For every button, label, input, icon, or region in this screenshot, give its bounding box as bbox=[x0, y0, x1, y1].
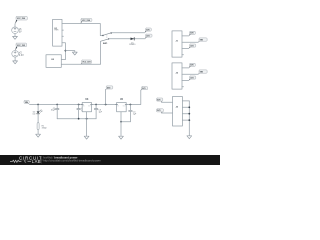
wire U4 ground rail bbox=[121, 121, 130, 123]
wire J3 left pin1 bbox=[161, 101, 172, 103]
svg-text:VCC_3V3: VCC_3V3 bbox=[17, 45, 25, 47]
header J3 bbox=[173, 97, 183, 127]
wire bbox=[182, 113, 189, 115]
net flag 3V3 (J3 left2) bbox=[156, 109, 163, 113]
label V1 5V bbox=[19, 28, 23, 34]
wire U3 ground bbox=[86, 112, 88, 136]
wire bottom rail bbox=[57, 118, 96, 120]
footer bar bbox=[0, 155, 220, 165]
pin stub U3 right bbox=[91, 104, 93, 106]
LED D2 bbox=[32, 110, 42, 116]
junction bbox=[105, 104, 107, 106]
junction bbox=[86, 118, 88, 120]
ground bbox=[36, 134, 41, 137]
pin stub U4 right bbox=[125, 104, 127, 106]
junction bbox=[95, 104, 97, 106]
svg-text:red: red bbox=[32, 114, 35, 116]
junction bbox=[120, 121, 122, 123]
wire to net flag 5V0 (rail) bbox=[105, 89, 107, 104]
pin stub J2.4 bbox=[182, 86, 184, 88]
header J1 bbox=[172, 31, 182, 57]
wire U4 ground bbox=[120, 112, 122, 136]
wire bbox=[14, 24, 16, 27]
net flag 5V0 (top right) bbox=[145, 28, 151, 33]
svg-text:VCC_3V3: VCC_3V3 bbox=[82, 62, 90, 64]
wire J1 pin3 bbox=[182, 48, 189, 50]
voltage source V1 bbox=[12, 27, 19, 34]
net flag 3V3 (J2.3) bbox=[189, 76, 196, 80]
wire bbox=[14, 57, 16, 61]
svg-text:5V0: 5V0 bbox=[157, 99, 160, 101]
ground bbox=[13, 61, 18, 64]
pin stub U1.3 bbox=[62, 35, 63, 37]
junction bbox=[188, 119, 190, 121]
junction bbox=[130, 104, 132, 106]
svg-text:5V0: 5V0 bbox=[190, 33, 193, 35]
svg-text:3V3: 3V3 bbox=[157, 110, 160, 112]
wire J2 pin1 bbox=[182, 67, 189, 69]
net flag VCC_5V0 (top wire) bbox=[81, 19, 92, 24]
diode D1 bbox=[129, 38, 135, 47]
net flag 3V3 (J1.3) bbox=[189, 44, 196, 48]
svg-text:3.3V: 3.3V bbox=[19, 54, 24, 57]
svg-text:5V0: 5V0 bbox=[146, 29, 149, 31]
ground bbox=[187, 136, 192, 139]
wire U1 pin4 down bbox=[61, 43, 65, 60]
junction bbox=[188, 113, 190, 115]
svg-text:OUT: OUT bbox=[123, 106, 126, 108]
svg-text:5V: 5V bbox=[19, 31, 22, 34]
IC U1 bbox=[53, 19, 62, 46]
junction bbox=[37, 104, 39, 106]
wire switch throw2 through diode bbox=[109, 38, 145, 40]
svg-text:10µF: 10µF bbox=[51, 110, 56, 112]
IC U2 bbox=[46, 55, 61, 68]
net flag VIN (J2.2) bbox=[198, 70, 207, 74]
svg-text:IN: IN bbox=[117, 106, 118, 108]
capacitor C2 bbox=[77, 105, 85, 119]
wire to ground bbox=[65, 51, 74, 53]
wire J2 pin3 bbox=[182, 80, 189, 82]
svg-text:VCC_5V0: VCC_5V0 bbox=[82, 20, 90, 22]
wire bbox=[14, 49, 16, 51]
ground bbox=[119, 136, 124, 139]
wire switch throw1 to flag bbox=[112, 32, 145, 34]
wire J2 pin2 bbox=[182, 73, 198, 75]
wire J3 right pins to bus bbox=[182, 100, 189, 102]
ground bbox=[72, 52, 77, 55]
resistor R1 bbox=[37, 123, 47, 130]
svg-text:LAB: LAB bbox=[32, 159, 41, 164]
svg-text:1N5819: 1N5819 bbox=[129, 44, 135, 46]
net flag 3V3 (right of diode) bbox=[145, 34, 152, 39]
junction bbox=[65, 50, 67, 52]
wire bbox=[182, 106, 189, 108]
svg-text:5V0: 5V0 bbox=[107, 87, 110, 89]
wire U2 pin2 to switch pole2 bbox=[61, 41, 100, 64]
net flag 5V0 (J1.1) bbox=[189, 31, 195, 35]
junction bbox=[78, 118, 80, 120]
wire top rail right segment bbox=[126, 90, 141, 104]
wire LED branch bbox=[37, 105, 39, 112]
wire bbox=[37, 114, 39, 123]
wire top rail left segment bbox=[30, 104, 83, 106]
svg-text:OUT: OUT bbox=[88, 106, 91, 108]
wire bbox=[14, 34, 16, 37]
header J2 bbox=[172, 63, 182, 89]
ground bbox=[84, 136, 89, 139]
net flag VIN (J1.2) bbox=[198, 38, 207, 42]
net flag 5V0 (mid rail) bbox=[106, 86, 113, 90]
capacitor C4 bbox=[129, 105, 137, 122]
svg-text:330Ω: 330Ω bbox=[42, 128, 47, 130]
wire top rail mid segment bbox=[92, 104, 117, 106]
wire bbox=[37, 130, 39, 135]
pin stub U3 left bbox=[81, 104, 83, 106]
svg-text:http://circuitlab.com/c/fzw9hd: http://circuitlab.com/c/fzw9hd-breadboar… bbox=[43, 159, 100, 163]
wire J3 left pin2 bbox=[161, 112, 172, 114]
ground bbox=[13, 36, 18, 39]
pin stub U1.2 bbox=[62, 29, 63, 31]
net flag VCC_3V3 (U2 wire) bbox=[81, 60, 92, 64]
pin stub U4 left bbox=[116, 104, 118, 106]
svg-text:VCC_5V0: VCC_5V0 bbox=[17, 18, 25, 20]
regulator U4 bbox=[117, 98, 127, 112]
svg-text:IN: IN bbox=[83, 106, 84, 108]
label V2 3.3V bbox=[19, 52, 24, 58]
net flag 5V0 (J2.1) bbox=[189, 63, 195, 67]
svg-text:3V3: 3V3 bbox=[190, 77, 193, 79]
wire U1 pin1 to switch bbox=[62, 24, 100, 36]
net flag 5V0 (J3 left1) bbox=[156, 98, 162, 102]
svg-text:5V0: 5V0 bbox=[190, 65, 193, 67]
net flag 3V3 (right rail) bbox=[141, 87, 148, 91]
svg-text:3V3: 3V3 bbox=[146, 35, 149, 37]
wire J1 pin1 bbox=[182, 35, 189, 37]
regulator U3 bbox=[82, 99, 91, 112]
net flag VCC_5V0 (V1) bbox=[15, 16, 27, 24]
wire ground bus bbox=[188, 101, 190, 136]
capacitor C1 bbox=[51, 105, 59, 119]
svg-text:3V3: 3V3 bbox=[190, 45, 193, 47]
junction bbox=[78, 104, 80, 106]
net flag VIN (rail left) bbox=[24, 100, 30, 104]
wire bbox=[182, 119, 189, 121]
junction bbox=[56, 104, 58, 106]
voltage source V2 bbox=[12, 51, 19, 58]
junction bbox=[188, 106, 190, 108]
switch SW1 bbox=[100, 32, 112, 45]
svg-text:3V3: 3V3 bbox=[142, 88, 145, 90]
capacitor C3 bbox=[94, 105, 102, 119]
net flag VCC_3V3 (V2) bbox=[15, 43, 27, 51]
wire J1 pin2 bbox=[182, 41, 198, 43]
pin stub J1.4 bbox=[182, 54, 184, 56]
